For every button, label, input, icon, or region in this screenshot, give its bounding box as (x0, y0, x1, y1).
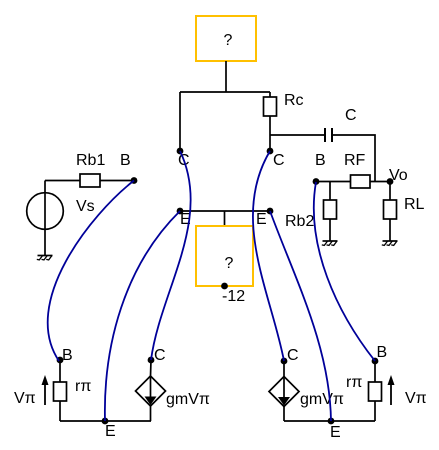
emitter bus wire (180, 210, 270, 212)
svg-text:-12: -12 (222, 288, 245, 305)
svg-text:Vs: Vs (76, 198, 95, 215)
svg-text:Vπ: Vπ (405, 390, 427, 407)
source Vs (27, 181, 95, 256)
svg-text:C: C (345, 107, 357, 124)
svg-text:?: ? (225, 255, 234, 272)
svg-text:B: B (315, 152, 326, 169)
node E right (256, 208, 273, 228)
node B bottom-right (372, 344, 388, 364)
wire Vs to Rb1 (45, 180, 80, 182)
arrow V-pi left (14, 375, 49, 407)
wire top bus (180, 91, 270, 93)
node C bottom-left (148, 347, 166, 364)
ground RL (382, 241, 398, 245)
svg-text:E: E (256, 211, 267, 228)
wire r-pi to rail (374, 401, 376, 421)
wire B to r-pi (59, 360, 61, 382)
svg-text:B: B (120, 152, 131, 169)
resistor r-pi right (346, 374, 382, 401)
node C bottom-right (281, 347, 299, 364)
node C right (267, 148, 285, 169)
svg-text:Rc: Rc (284, 92, 304, 109)
svg-text:C: C (287, 347, 299, 364)
svg-text:rπ: rπ (75, 378, 91, 395)
svg-text:?: ? (224, 32, 233, 49)
svg-text:rπ: rπ (346, 374, 362, 391)
dependent source gmV-pi right (269, 377, 344, 409)
wire source to rail (283, 407, 285, 422)
ground Rb2 (322, 241, 338, 245)
wire Rc to collector node (269, 116, 271, 151)
arrow V-pi right (388, 375, 427, 407)
svg-text:E: E (330, 424, 341, 441)
resistor RL (384, 182, 425, 242)
wire RF to Vo (370, 181, 390, 183)
svg-text:gmVπ: gmVπ (300, 391, 344, 408)
wire to capacitor (270, 134, 325, 136)
wire B to r-pi (374, 361, 376, 382)
wire left drop to collector node (179, 92, 181, 151)
wire Rb1 to node B (100, 180, 134, 182)
node E bottom-left (102, 418, 116, 440)
bottom rail left (60, 420, 151, 422)
svg-text:gmVπ: gmVπ (166, 391, 210, 408)
resistor r-pi left (54, 378, 92, 401)
svg-text:RF: RF (344, 152, 366, 169)
node C left (177, 148, 190, 169)
resistor RF (344, 152, 370, 188)
resistor Rc (264, 92, 304, 116)
svg-text:Rb2: Rb2 (285, 213, 314, 230)
mystery box mid (-12 supply) (196, 226, 253, 305)
wire B right (blue) (314, 182, 375, 361)
wire C right (blue) (253, 151, 284, 361)
resistor Rb1 (76, 152, 105, 187)
wire C to source (150, 360, 153, 376)
wire right drop to Rc (269, 92, 271, 97)
capacitor C (325, 107, 357, 142)
svg-text:Rb1: Rb1 (76, 152, 105, 169)
svg-text:B: B (62, 347, 73, 364)
wire source to rail (150, 406, 152, 421)
wire C to source (283, 361, 285, 377)
wire E right (blue) (270, 211, 331, 421)
svg-text:Vo: Vo (389, 167, 408, 184)
wire B left (blue) (48, 181, 134, 362)
node B right (313, 152, 326, 185)
dependent source gmV-pi left (136, 376, 210, 408)
bottom rail right (284, 420, 375, 422)
wire bus to mystery box (224, 211, 226, 226)
node B left (120, 152, 137, 184)
svg-text:Vπ: Vπ (14, 390, 36, 407)
ground Vs (37, 256, 53, 260)
svg-text:C: C (273, 152, 285, 169)
wire C left (blue) (151, 151, 191, 360)
node E left (177, 208, 191, 228)
node Vo (387, 167, 408, 185)
resistor Rb2 (285, 182, 337, 242)
wire top box to bus (225, 61, 227, 92)
wire E left (blue) (105, 211, 180, 421)
svg-text:B: B (377, 344, 388, 361)
wire B to RF (316, 181, 350, 183)
wire r-pi to bottom rail (59, 401, 61, 421)
wire capacitor to output (332, 135, 375, 182)
svg-text:E: E (105, 423, 116, 440)
svg-text:C: C (154, 347, 166, 364)
node B bottom-left (57, 347, 73, 364)
mystery box top (+12 supply) (196, 16, 256, 61)
node E bottom-right (328, 418, 341, 441)
svg-text:RL: RL (404, 196, 425, 213)
